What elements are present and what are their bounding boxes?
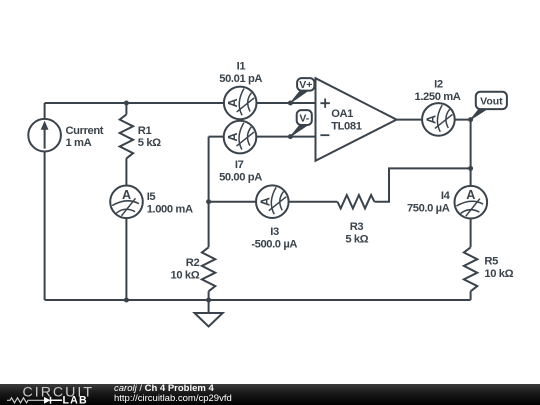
wire R5 bottom stub [470, 291, 472, 300]
resistor R3 [337, 195, 374, 208]
svg-text:750.0 µA: 750.0 µA [407, 203, 450, 215]
svg-text:Vout: Vout [480, 95, 503, 107]
op-amp minus input mark [320, 134, 329, 136]
svg-text:50.01 pA: 50.01 pA [219, 73, 262, 85]
svg-text:I4: I4 [441, 190, 451, 202]
op-amp U1 triangle [316, 78, 397, 161]
svg-text:TL081: TL081 [331, 121, 362, 133]
svg-text:OA1: OA1 [331, 108, 353, 120]
current source Current 1mA [28, 119, 61, 152]
svg-text:V-: V- [299, 112, 309, 124]
wire R1 to I5 to bottom [125, 158, 127, 300]
svg-text:V+: V+ [299, 79, 312, 91]
svg-text:I5: I5 [147, 191, 156, 203]
svg-text:Current: Current [66, 125, 104, 137]
CircuitLab logo [0, 384, 100, 405]
svg-text:R3: R3 [350, 221, 364, 233]
svg-text:R2: R2 [186, 257, 200, 269]
svg-text:5 kΩ: 5 kΩ [138, 137, 161, 149]
wire R2 bottom to ground stub [208, 291, 210, 313]
resistor R1 [120, 114, 133, 158]
svg-text:-500.0 µA: -500.0 µA [251, 239, 297, 251]
svg-text:1.000 mA: 1.000 mA [147, 203, 193, 215]
flag V- [290, 110, 311, 137]
svg-text:R1: R1 [138, 125, 152, 137]
wire right vertical upper [470, 120, 472, 248]
wire R3 to right riser [374, 168, 470, 201]
node I3 branch junction [206, 199, 211, 204]
ammeter I4 [455, 186, 488, 219]
footer text [114, 384, 232, 404]
svg-text:I7: I7 [235, 159, 244, 171]
bottom junction ground [206, 298, 211, 303]
svg-text:10 kΩ: 10 kΩ [171, 269, 200, 281]
svg-text:1.250 mA: 1.250 mA [415, 91, 461, 103]
node V- junction [288, 134, 293, 139]
wire inverting row [209, 136, 316, 138]
svg-text:10 kΩ: 10 kΩ [484, 268, 513, 280]
ammeter I2 [422, 103, 455, 136]
wire top rail node A [45, 102, 316, 104]
ammeter I3 [256, 185, 289, 218]
node V+ junction [288, 101, 293, 106]
op-amp plus input mark [320, 99, 330, 108]
ground [195, 313, 223, 327]
wire bottom rail [45, 299, 471, 301]
resistor R5 [464, 247, 477, 291]
svg-text:I1: I1 [237, 61, 246, 73]
svg-text:I3: I3 [270, 226, 279, 238]
ammeter I1 [224, 87, 257, 120]
resistor R2 [202, 247, 215, 291]
svg-text:I2: I2 [434, 79, 443, 91]
bottom junction left [124, 298, 129, 303]
wire R1 top stub [125, 103, 127, 114]
node R1 top junction [124, 101, 129, 106]
wire left vertical [44, 103, 46, 300]
wire middle vertical [208, 137, 210, 248]
svg-text:50.00 pA: 50.00 pA [219, 172, 262, 184]
node feedback junction [468, 166, 473, 171]
wire I3 row [209, 201, 338, 203]
flag Vout [471, 92, 507, 120]
wire op-amp output row [397, 119, 471, 121]
svg-text:1 mA: 1 mA [66, 137, 92, 149]
node Vout junction [468, 117, 473, 122]
ammeter I5 [110, 186, 143, 219]
svg-text:LAB: LAB [63, 395, 88, 405]
footer bar [0, 384, 540, 405]
ammeter I7 [224, 121, 257, 154]
svg-text:5 kΩ: 5 kΩ [345, 233, 368, 245]
svg-text:R5: R5 [484, 255, 498, 267]
flag V+ [290, 78, 314, 103]
